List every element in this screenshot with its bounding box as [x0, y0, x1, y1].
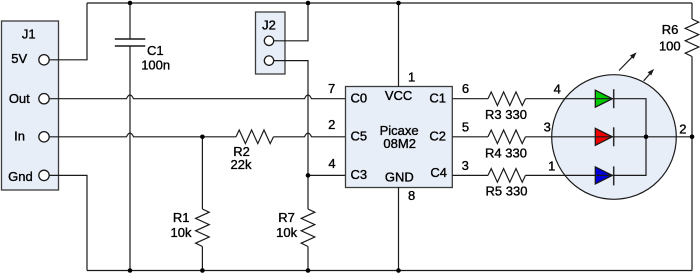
svg-text:C1: C1: [429, 91, 446, 106]
wire In row left: [49, 133, 236, 137]
J1 pin In circle: [39, 132, 49, 142]
LED arrow 2: [644, 69, 654, 81]
svg-text:5V: 5V: [11, 51, 27, 66]
svg-text:C3: C3: [351, 167, 368, 182]
svg-text:7: 7: [328, 81, 335, 96]
resistor R7: [276, 175, 315, 270]
wire IC pin8 GND: [398, 188, 400, 271]
J2 pin 1 circle: [264, 36, 273, 45]
svg-text:1: 1: [408, 69, 415, 84]
svg-text:R4 330: R4 330: [485, 145, 527, 160]
svg-text:C0: C0: [351, 91, 368, 106]
wire J2 pin2 down to C3 row: [274, 61, 308, 176]
svg-text:In: In: [14, 129, 25, 144]
svg-text:4: 4: [328, 156, 335, 171]
svg-text:5: 5: [462, 120, 469, 135]
connector J1: [2, 21, 59, 190]
wire Out row: [49, 95, 345, 99]
svg-text:1: 1: [548, 158, 555, 173]
svg-text:R5 330: R5 330: [486, 184, 528, 199]
svg-text:C1: C1: [147, 43, 164, 58]
node bottom rail / C1: [128, 268, 133, 273]
node LED common cathode: [644, 135, 649, 140]
node top rail / J2: [306, 1, 311, 6]
svg-text:10k: 10k: [276, 225, 297, 240]
wire top rail: [87, 2, 692, 4]
wire LED cathode bracket: [614, 99, 646, 176]
svg-text:Gnd: Gnd: [8, 169, 33, 184]
svg-text:4: 4: [554, 81, 561, 96]
node bottom rail / R7: [306, 268, 311, 273]
svg-text:C5: C5: [351, 129, 368, 144]
svg-text:3: 3: [462, 158, 469, 173]
capacitor C1: [115, 3, 170, 271]
wire J2 pin1 to top rail: [274, 3, 308, 41]
node C3 row / R7: [306, 173, 311, 178]
wire R3 to LED: [526, 98, 596, 100]
wire right vertical: [691, 57, 693, 271]
svg-text:6: 6: [462, 81, 469, 96]
node right vertical / LED out: [690, 135, 695, 140]
op IC U1 Picaxe 08M2: [346, 87, 453, 188]
svg-text:2: 2: [679, 121, 686, 136]
node top rail / VCC: [396, 1, 401, 6]
J1 pin Gnd circle: [39, 170, 49, 180]
J1 pin 5V circle: [39, 55, 49, 65]
svg-text:R6: R6: [662, 22, 679, 37]
LED arrow 1: [619, 52, 637, 70]
wire bottom rail: [87, 270, 692, 272]
node top rail / C1: [128, 1, 133, 6]
resistor R5: [488, 169, 526, 183]
svg-text:J2: J2: [262, 18, 276, 33]
svg-text:J1: J1: [22, 27, 36, 42]
svg-text:GND: GND: [385, 170, 414, 185]
node In row / R1: [200, 135, 205, 140]
svg-text:22k: 22k: [231, 157, 252, 172]
resistor R4: [488, 130, 526, 144]
LED green diode: [595, 89, 613, 108]
resistor R2: [236, 130, 274, 144]
LED blue diode: [595, 166, 613, 185]
J1 pin Out circle: [39, 94, 49, 104]
svg-text:10k: 10k: [171, 225, 192, 240]
svg-text:C4: C4: [430, 165, 447, 180]
wire C3 row to IC: [308, 174, 346, 176]
J2 pin 2 circle: [264, 56, 273, 65]
wire IC pin1 VCC: [398, 3, 400, 87]
svg-text:C2: C2: [429, 129, 446, 144]
svg-text:R7: R7: [278, 210, 295, 225]
svg-text:R1: R1: [173, 210, 190, 225]
wire C1 pin row right: [452, 98, 488, 100]
connector J2: [256, 12, 286, 74]
wire In row right: [274, 133, 346, 137]
node bottom rail / R1: [200, 268, 205, 273]
svg-text:R3 330: R3 330: [485, 107, 527, 122]
svg-text:VCC: VCC: [385, 88, 412, 103]
resistor R3: [488, 92, 526, 106]
svg-text:100n: 100n: [141, 58, 170, 73]
svg-text:08M2: 08M2: [383, 136, 416, 151]
wire R4 to LED: [526, 136, 596, 138]
wire C4 pin row right: [452, 174, 488, 176]
resistor R6: [659, 3, 699, 57]
wire C2 pin row right: [452, 136, 488, 138]
RGB LED package circle: [552, 75, 677, 200]
wire red cathode: [614, 136, 646, 138]
svg-text:Out: Out: [9, 91, 30, 106]
svg-text:8: 8: [408, 188, 415, 203]
svg-text:2: 2: [328, 117, 335, 132]
svg-text:100: 100: [659, 39, 681, 54]
svg-text:3: 3: [544, 119, 551, 134]
wire 5V riser: [49, 3, 87, 60]
wire R5 to LED: [526, 174, 596, 176]
wire Gnd riser: [49, 175, 87, 270]
LED red diode: [595, 127, 613, 146]
node bottom rail / GND pin: [396, 268, 401, 273]
resistor R1: [171, 137, 210, 271]
wire common cathode out: [646, 136, 692, 138]
